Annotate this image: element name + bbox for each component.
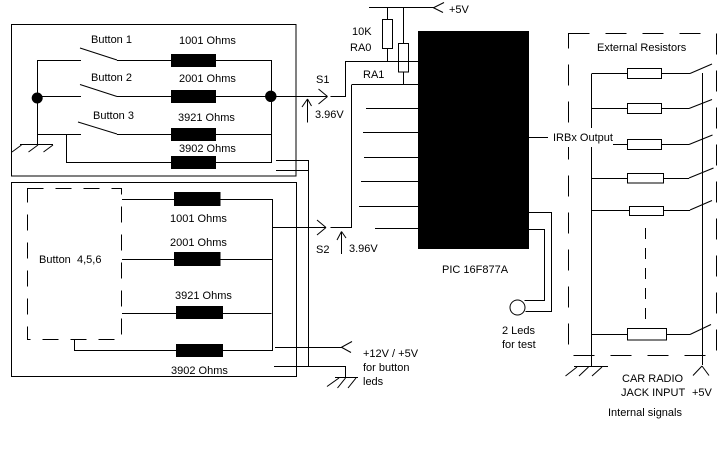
wire: jack to R1 box2: [122, 199, 175, 201]
wire: R2 to node bus box2: [220, 259, 272, 261]
wire: node bus box2: [272, 199, 274, 351]
svg-text:3902 Ohms: 3902 Ohms: [171, 365, 228, 377]
svg-text:2001 Ohms: 2001 Ohms: [170, 237, 227, 249]
arrow: 3.96V probe S2: [337, 232, 346, 255]
svg-text:S1: S1: [316, 74, 329, 86]
ground button leds: [327, 378, 358, 389]
wire: ext row1 left: [592, 73, 628, 75]
resistor 2001 Ohms group1: [172, 91, 216, 103]
wire: button led supply A: [276, 160, 309, 162]
svg-text:2001 Ohms: 2001 Ohms: [179, 73, 236, 85]
resistor 10K RA0 pull-up: [383, 8, 393, 62]
wire: ground run: [274, 367, 346, 378]
label IRBx Output: [551, 128, 613, 147]
wire: ext row3 left: [592, 144, 628, 146]
wire: +12V/+5V supply: [275, 347, 342, 349]
pin stub 4: [359, 206, 418, 208]
wire: S2 output: [273, 227, 327, 229]
wire: S2 to riser: [331, 227, 353, 229]
svg-text:PIC 16F877A: PIC 16F877A: [442, 264, 509, 276]
LED indicator (2 test leds): [510, 300, 525, 315]
svg-text:Button 2: Button 2: [91, 72, 132, 84]
svg-text:RA0: RA0: [350, 42, 371, 54]
wire: LED 2: [525, 230, 545, 301]
box: button group 4-6 enclosure: [12, 183, 297, 377]
svg-text:leds: leds: [363, 376, 384, 388]
resistor 1001 Ohms group1: [172, 55, 216, 67]
node: left bus junction: [32, 93, 42, 103]
switch blade ext row1: [690, 64, 712, 74]
wire: jack to R3 box2: [122, 313, 177, 315]
svg-text:CAR RADIO: CAR RADIO: [622, 373, 684, 385]
wire: left bus external: [591, 74, 593, 366]
wire: ext row3 right: [662, 144, 690, 146]
svg-text:Button: Button: [39, 254, 71, 266]
arrow: 3.96V probe S1: [302, 99, 312, 123]
wire: R1 to node bus: [215, 60, 271, 62]
wire: R4 to node bus box2: [223, 350, 273, 352]
svg-text:JACK INPUT: JACK INPUT: [621, 387, 685, 399]
svg-text:+12V / +5V: +12V / +5V: [363, 348, 419, 360]
wire: RA0 pin: [345, 61, 418, 63]
wire: dashed box drop to R4: [75, 340, 177, 351]
resistor 3902 Ohms group2: [177, 345, 223, 357]
wire: ext bottom row right: [667, 334, 691, 336]
pin stub 3: [361, 181, 418, 183]
wire: ext row1 right: [662, 73, 691, 75]
wire: node bus box1: [271, 60, 273, 163]
resistor ext row2: [628, 104, 662, 114]
wire: ext row4 left: [592, 178, 628, 180]
svg-text:S2: S2: [316, 244, 329, 256]
svg-text:10K: 10K: [352, 26, 372, 38]
box: button group 1-3 enclosure: [12, 25, 297, 177]
wire: ext row5 right: [664, 210, 691, 212]
svg-text:Button 3: Button 3: [93, 110, 134, 122]
resistor 1001 Ohms group2: [175, 193, 221, 206]
svg-text:for button: for button: [363, 362, 409, 374]
wire: dashed continuation: [645, 228, 647, 329]
svg-text:3921 Ohms: 3921 Ohms: [178, 112, 235, 124]
wire: R4 to node bus: [215, 162, 272, 164]
wire: ext bottom row left: [592, 334, 628, 336]
svg-text:IRBx Output: IRBx Output: [553, 132, 613, 144]
wire: ext row4 right: [664, 178, 690, 180]
wire: S1 to RA0: [331, 61, 346, 97]
pin stub 5: [375, 228, 418, 230]
svg-text:+5V: +5V: [692, 387, 713, 399]
wire: RA1 pin: [352, 84, 418, 86]
box: Button 4,5,6 dashed: [28, 189, 122, 340]
pin stub 2: [364, 157, 418, 159]
svg-text:4,5,6: 4,5,6: [77, 254, 101, 266]
switch blade ext bottom: [690, 325, 711, 335]
wire: switch1 to R1: [117, 60, 171, 62]
wire: R3 to node bus box2: [223, 313, 272, 315]
wire: jack to R2 box2: [122, 259, 175, 261]
wire: button led supply B: [276, 170, 309, 172]
switch blade ext row4: [689, 168, 714, 178]
wire: LED 1: [526, 213, 552, 312]
svg-text:External Resistors: External Resistors: [597, 42, 687, 54]
wire: IRBx output pin: [529, 137, 548, 139]
resistor RA1 pull-up: [399, 8, 409, 86]
switch blade ext row2: [689, 100, 712, 109]
svg-text:RA1: RA1: [363, 69, 384, 81]
wire: ext row2 left: [592, 108, 628, 110]
resistor ext bottom CAR RADIO: [628, 329, 667, 341]
switch Button 1: [38, 48, 118, 61]
pin stub 0: [366, 108, 418, 110]
switch blade ext row5: [690, 201, 712, 211]
arrow: +12V/+5V supply: [341, 342, 352, 353]
box: External Resistors dashed: [569, 34, 717, 356]
wire: right bus external: [702, 73, 704, 365]
svg-text:3902 Ohms: 3902 Ohms: [179, 143, 236, 155]
svg-text:1001 Ohms: 1001 Ohms: [170, 213, 227, 225]
resistor 3921 Ohms group2: [177, 307, 223, 319]
svg-text:+5V: +5V: [449, 4, 470, 16]
arrow: S2 direction: [317, 220, 326, 235]
svg-text:3921 Ohms: 3921 Ohms: [175, 290, 232, 302]
arrow: +5V supply: [433, 3, 444, 13]
wire: +5V supply top: [369, 7, 434, 9]
arrow: S1 direction: [319, 89, 328, 104]
wire: left bus box1: [37, 60, 39, 145]
wire: R1 to node bus box2: [220, 199, 272, 201]
wire: switch3 to R3: [117, 134, 171, 136]
ground box1: [12, 145, 53, 153]
arrow: +5V into right bus: [693, 366, 709, 376]
resistor 2001 Ohms group2: [175, 253, 221, 266]
resistor ext row4: [628, 174, 664, 184]
wire: ext row5 left: [592, 210, 630, 212]
svg-text:3.96V: 3.96V: [349, 243, 378, 255]
wire: S2 riser to RA1: [351, 85, 353, 228]
svg-text:for test: for test: [502, 339, 536, 351]
resistor ext row3: [628, 140, 662, 150]
switch blade ext row3: [689, 135, 713, 145]
wire: switch2 to R2: [117, 96, 171, 98]
resistor ext row1: [628, 69, 662, 79]
wire: ext row2 right: [662, 108, 690, 110]
svg-text:2 Leds: 2 Leds: [502, 325, 536, 337]
wire: supply drop: [308, 160, 310, 366]
svg-text:3.96V: 3.96V: [315, 109, 344, 121]
svg-text:Button 1: Button 1: [91, 34, 132, 46]
IC U1 PIC 16F877A: [418, 31, 529, 249]
wire: R2 to node bus: [215, 96, 271, 98]
switch Button 3: [38, 122, 118, 135]
switch Button 2: [38, 85, 118, 97]
svg-text:1001 Ohms: 1001 Ohms: [179, 35, 236, 47]
wire: R3 to node bus: [215, 134, 271, 136]
wire: S1 output: [272, 96, 328, 98]
resistor ext row5: [630, 207, 664, 216]
pin stub 1: [363, 132, 418, 134]
resistor 3902 Ohms group1: [172, 157, 216, 169]
wire: 3902 branch drop: [67, 135, 172, 163]
resistor 3921 Ohms group1: [172, 129, 216, 141]
node: output junction box1: [266, 91, 276, 101]
ground external: [566, 367, 609, 377]
svg-text:Internal signals: Internal signals: [608, 407, 682, 419]
